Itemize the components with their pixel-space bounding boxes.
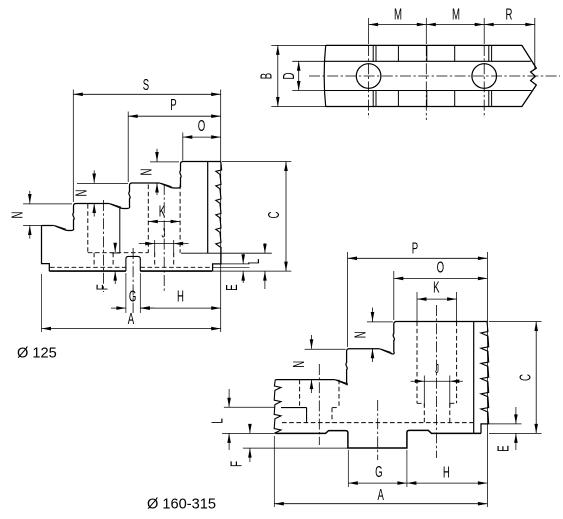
svg-text:C: C [265, 212, 283, 219]
dimension N2 Ø125 [72, 170, 128, 216]
svg-text:O: O [198, 117, 205, 135]
svg-text:H: H [177, 287, 184, 305]
hidden guideway line [88, 252, 149, 254]
jaw Ø125 wall 3-4 [171, 162, 183, 189]
label Ø125 [17, 346, 57, 362]
svg-text:E: E [494, 445, 512, 452]
hidden guideway line Ø160 [282, 422, 473, 424]
label Ø160-315 [147, 497, 216, 513]
svg-text:G: G [375, 463, 382, 481]
jaw Ø125 step 3 groove [160, 183, 172, 188]
jaw Ø125 right lip [213, 247, 221, 271]
svg-text:A: A [377, 486, 384, 504]
top view hole2 centerline [483, 18, 485, 118]
dimension N1 Ø125 [8, 191, 72, 239]
dimension N3 Ø125 [137, 149, 179, 195]
dimension G Ø160 [348, 450, 407, 487]
svg-text:M: M [452, 5, 460, 23]
jaw Ø125 step 2 groove [109, 204, 121, 209]
svg-text:R: R [506, 5, 513, 23]
jaw Ø125 step 1 top edge [42, 225, 54, 227]
hole 1 centerline [103, 200, 105, 292]
svg-text:S: S [143, 76, 149, 94]
dimension H Ø160 [407, 463, 488, 485]
svg-text:G: G [129, 287, 136, 305]
svg-text:P: P [170, 96, 176, 114]
jaw Ø125 serration bottom ledge line [181, 252, 272, 254]
hidden line above bottom [50, 266, 211, 268]
top view inner rail lines [324, 61, 531, 90]
jaw Ø160 guideway ledge [281, 408, 307, 423]
top view hole 1 (left) [356, 64, 381, 89]
dimension F Ø160 [227, 424, 347, 467]
jaw Ø125 G-slot [126, 256, 140, 271]
jaw Ø125 step 3 top edge [132, 182, 160, 184]
dimension B [257, 45, 325, 106]
svg-text:J: J [435, 362, 439, 376]
jaw Ø125 bottom edge [49, 270, 212, 272]
hole 2 centerline Ø160 [436, 305, 438, 458]
dimension A Ø125 [42, 274, 221, 332]
dimension D [280, 61, 326, 90]
dimension O Ø160 [394, 258, 488, 320]
G-slot centerline [132, 248, 134, 313]
svg-text:M: M [394, 5, 402, 23]
top view hole 2 (right) [472, 64, 497, 89]
svg-text:Ø 125: Ø 125 [17, 346, 57, 362]
svg-text:K: K [433, 278, 440, 296]
svg-text:L: L [208, 418, 226, 423]
dimension H Ø125 [140, 287, 220, 310]
svg-text:P: P [412, 239, 418, 257]
svg-text:D: D [280, 73, 298, 80]
svg-text:N: N [290, 361, 308, 368]
jaw Ø125 step 1 groove [54, 226, 66, 231]
jaw Ø160 top edge [396, 321, 488, 323]
top view rail segment lines [373, 45, 491, 106]
jaw Ø160 step 2 top edge [349, 348, 380, 350]
jaw Ø160 step 3 top edge [276, 379, 335, 381]
hidden slot hole 2 Ø160 [417, 322, 457, 423]
hidden slot hole 1 [88, 204, 120, 267]
jaw Ø160 serration root line [473, 322, 475, 434]
dimension J Ø125 [139, 227, 189, 254]
svg-text:J: J [161, 227, 165, 241]
dimension K Ø160 [417, 278, 457, 321]
jaw Ø125 left edge [42, 226, 50, 272]
dimension J Ø160 [411, 362, 463, 406]
jaw Ø125 wall 1-2 [65, 204, 76, 231]
jaw Ø160 serrated face right [481, 322, 489, 424]
dimension K Ø125 [148, 202, 180, 223]
jaw Ø160 step 3 groove [335, 380, 347, 385]
jaw Ø160 right lip [481, 424, 489, 434]
svg-text:N: N [351, 331, 369, 338]
top view jaw outline [324, 45, 536, 106]
svg-text:B: B [257, 73, 275, 79]
top view horizontal centerline [309, 75, 560, 77]
jaw Ø125 serrated face [216, 162, 222, 247]
svg-text:N: N [137, 169, 155, 176]
dimension R [484, 5, 535, 70]
dimension M (left) [369, 5, 427, 26]
dimension G Ø125 [111, 273, 154, 313]
dimension E Ø125 [213, 254, 250, 291]
dimension F Ø125 [93, 243, 117, 291]
hidden slot hole 2 [148, 185, 180, 268]
svg-text:F: F [227, 461, 245, 467]
jaw Ø160 serrated face left [274, 380, 281, 434]
svg-text:F: F [93, 284, 111, 290]
svg-text:N: N [8, 212, 26, 219]
top view hole1 centerline [368, 18, 370, 118]
dimension L Ø125 [245, 243, 267, 289]
jaw Ø125 step 2 top edge [76, 203, 110, 205]
dimension N1 Ø160 [351, 308, 392, 363]
dimension C Ø125 [213, 162, 291, 272]
dimension O Ø125 [183, 117, 221, 161]
svg-text:E: E [223, 284, 241, 291]
hole 2 centerline [163, 184, 165, 292]
jaw Ø160 wall 3-2 [346, 349, 349, 385]
jaw Ø125 top edge [183, 161, 221, 163]
svg-text:O: O [437, 258, 444, 276]
jaw Ø125 wall 2-3 [121, 183, 133, 209]
dimension S [73, 76, 220, 202]
dimension L Ø160 [208, 389, 275, 450]
dimension P Ø125 [128, 96, 221, 182]
hole 1 centerline Ø160 [318, 364, 320, 445]
top view mid centerline [425, 18, 427, 120]
dimension C Ø160 [489, 322, 542, 434]
svg-text:A: A [128, 309, 135, 327]
svg-text:C: C [516, 374, 534, 381]
jaw Ø160 bottom edge [275, 430, 481, 448]
dimension A Ø160 [274, 436, 487, 507]
right extension line [220, 90, 222, 333]
dimension M (right) [426, 5, 484, 26]
jaw Ø160 step 2 groove [380, 349, 392, 354]
right extension line Ø160 [486, 252, 488, 507]
svg-text:K: K [159, 202, 166, 220]
dimension P Ø160 [348, 239, 488, 347]
dimension E Ø160 [482, 407, 522, 452]
hidden slot hole 1 Ø160 [300, 380, 339, 423]
svg-text:L: L [245, 259, 263, 264]
foot centerline Ø160 [377, 400, 379, 460]
dimension N2 Ø160 [290, 335, 346, 393]
jaw Ø160 wall 2-1 [391, 322, 397, 354]
jaw Ø125 serration root line [207, 162, 209, 254]
svg-text:Ø 160-315: Ø 160-315 [147, 497, 216, 513]
svg-text:H: H [443, 463, 450, 481]
svg-text:N: N [72, 190, 90, 197]
